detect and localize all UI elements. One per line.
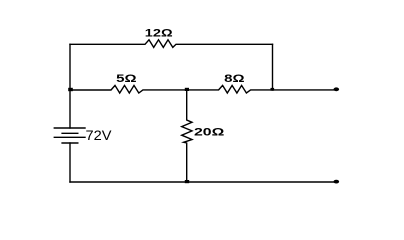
svg-text:20Ω: 20Ω bbox=[194, 126, 225, 138]
svg-text:8Ω: 8Ω bbox=[224, 73, 245, 85]
svg-text:12Ω: 12Ω bbox=[145, 28, 173, 40]
svg-text:72V: 72V bbox=[86, 127, 113, 143]
svg-text:5Ω: 5Ω bbox=[116, 73, 137, 85]
